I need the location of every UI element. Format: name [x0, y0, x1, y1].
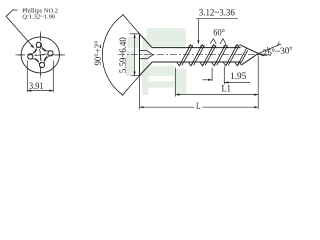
svg-text:L: L: [196, 101, 201, 111]
svg-text:25°~30°: 25°~30°: [262, 45, 294, 59]
svg-text:3.91: 3.91: [29, 81, 44, 91]
svg-text:L1: L1: [222, 84, 231, 94]
svg-text:3.12~3.36: 3.12~3.36: [199, 7, 235, 17]
svg-text:1.95: 1.95: [230, 71, 247, 81]
svg-text:60°: 60°: [213, 28, 225, 38]
svg-text:5.59~6.40: 5.59~6.40: [118, 37, 128, 73]
svg-text:90°+2°: 90°+2°: [93, 40, 103, 65]
svg-text:Q:1.32~1.90: Q:1.32~1.90: [22, 13, 55, 20]
